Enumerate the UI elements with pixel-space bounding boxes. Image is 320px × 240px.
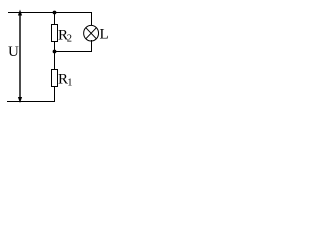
svg-text:1: 1 — [67, 78, 72, 89]
svg-text:2: 2 — [67, 34, 72, 45]
wire: bottom rail — [7, 101, 55, 103]
wire: lamp branch top (from top rail down to lamp) — [91, 12, 93, 26]
resistor R2 — [52, 25, 58, 42]
lamp L (circle with cross) — [84, 25, 99, 41]
node: middle junction dot — [53, 50, 57, 54]
wire: lamp bottom connector (across to middle node) — [55, 51, 93, 53]
svg-text:L: L — [100, 26, 109, 42]
wire: right branch — [54, 12, 56, 102]
voltage arrow U (double-headed, between rails) — [18, 10, 22, 104]
wire: top rail — [8, 12, 92, 14]
resistor R1 — [52, 70, 58, 87]
svg-text:U: U — [8, 44, 19, 60]
wire: lamp branch bottom (down from lamp) — [91, 40, 93, 52]
node: top junction dot — [53, 11, 57, 15]
